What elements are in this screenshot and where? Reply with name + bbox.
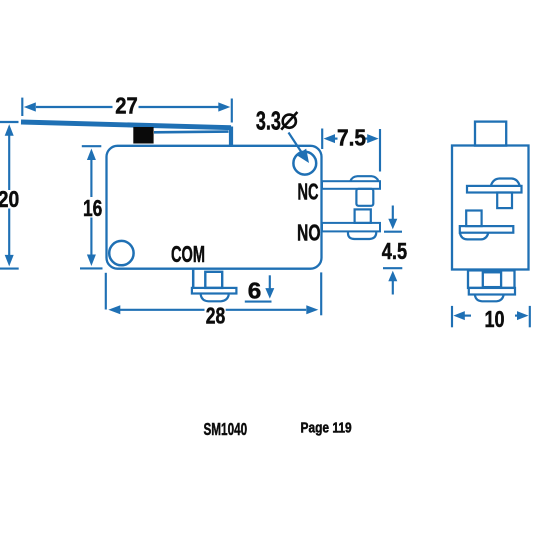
NO terminal bbox=[322, 209, 380, 239]
NC terminal bbox=[322, 176, 380, 206]
dimension 28 bbox=[106, 272, 321, 315]
dimension 20 bbox=[0, 122, 19, 269]
dimension 10 bbox=[452, 306, 530, 327]
svg-text:COM: COM bbox=[171, 241, 205, 267]
side view body bbox=[452, 146, 529, 270]
svg-text:4.5: 4.5 bbox=[382, 238, 407, 264]
side view COM terminal bbox=[468, 270, 515, 301]
switch body bbox=[107, 146, 322, 269]
dimension 16 bbox=[80, 146, 103, 268]
COM terminal bbox=[192, 270, 237, 302]
actuator button bbox=[133, 127, 153, 144]
svg-text:20: 20 bbox=[0, 186, 19, 212]
label 3.3 diameter bbox=[256, 106, 298, 136]
COM pivot circle bbox=[109, 241, 133, 265]
side view NO terminal bbox=[460, 211, 514, 240]
svg-text:16: 16 bbox=[83, 195, 102, 221]
dimension 4.5 bbox=[383, 206, 402, 295]
svg-text:NO: NO bbox=[297, 220, 321, 246]
dimension 27 bbox=[22, 98, 232, 123]
svg-text:7.5: 7.5 bbox=[337, 124, 366, 150]
svg-text:SM1040: SM1040 bbox=[204, 419, 248, 439]
svg-text:3.3: 3.3 bbox=[256, 106, 281, 136]
svg-text:27: 27 bbox=[115, 93, 138, 119]
dimension 7.5 bbox=[322, 129, 380, 172]
dimension 6 bbox=[245, 275, 274, 301]
side view push button bbox=[475, 122, 506, 146]
svg-text:28: 28 bbox=[206, 302, 226, 328]
svg-text:6: 6 bbox=[248, 277, 261, 303]
svg-text:10: 10 bbox=[485, 306, 505, 332]
leader arrow to hole bbox=[289, 133, 310, 164]
lever arm bbox=[21, 122, 231, 146]
mounting hole 3.3mm bbox=[293, 152, 316, 175]
side view NC terminal bbox=[467, 179, 522, 209]
svg-text:NC: NC bbox=[298, 178, 319, 204]
svg-text:Page 119: Page 119 bbox=[301, 420, 352, 437]
